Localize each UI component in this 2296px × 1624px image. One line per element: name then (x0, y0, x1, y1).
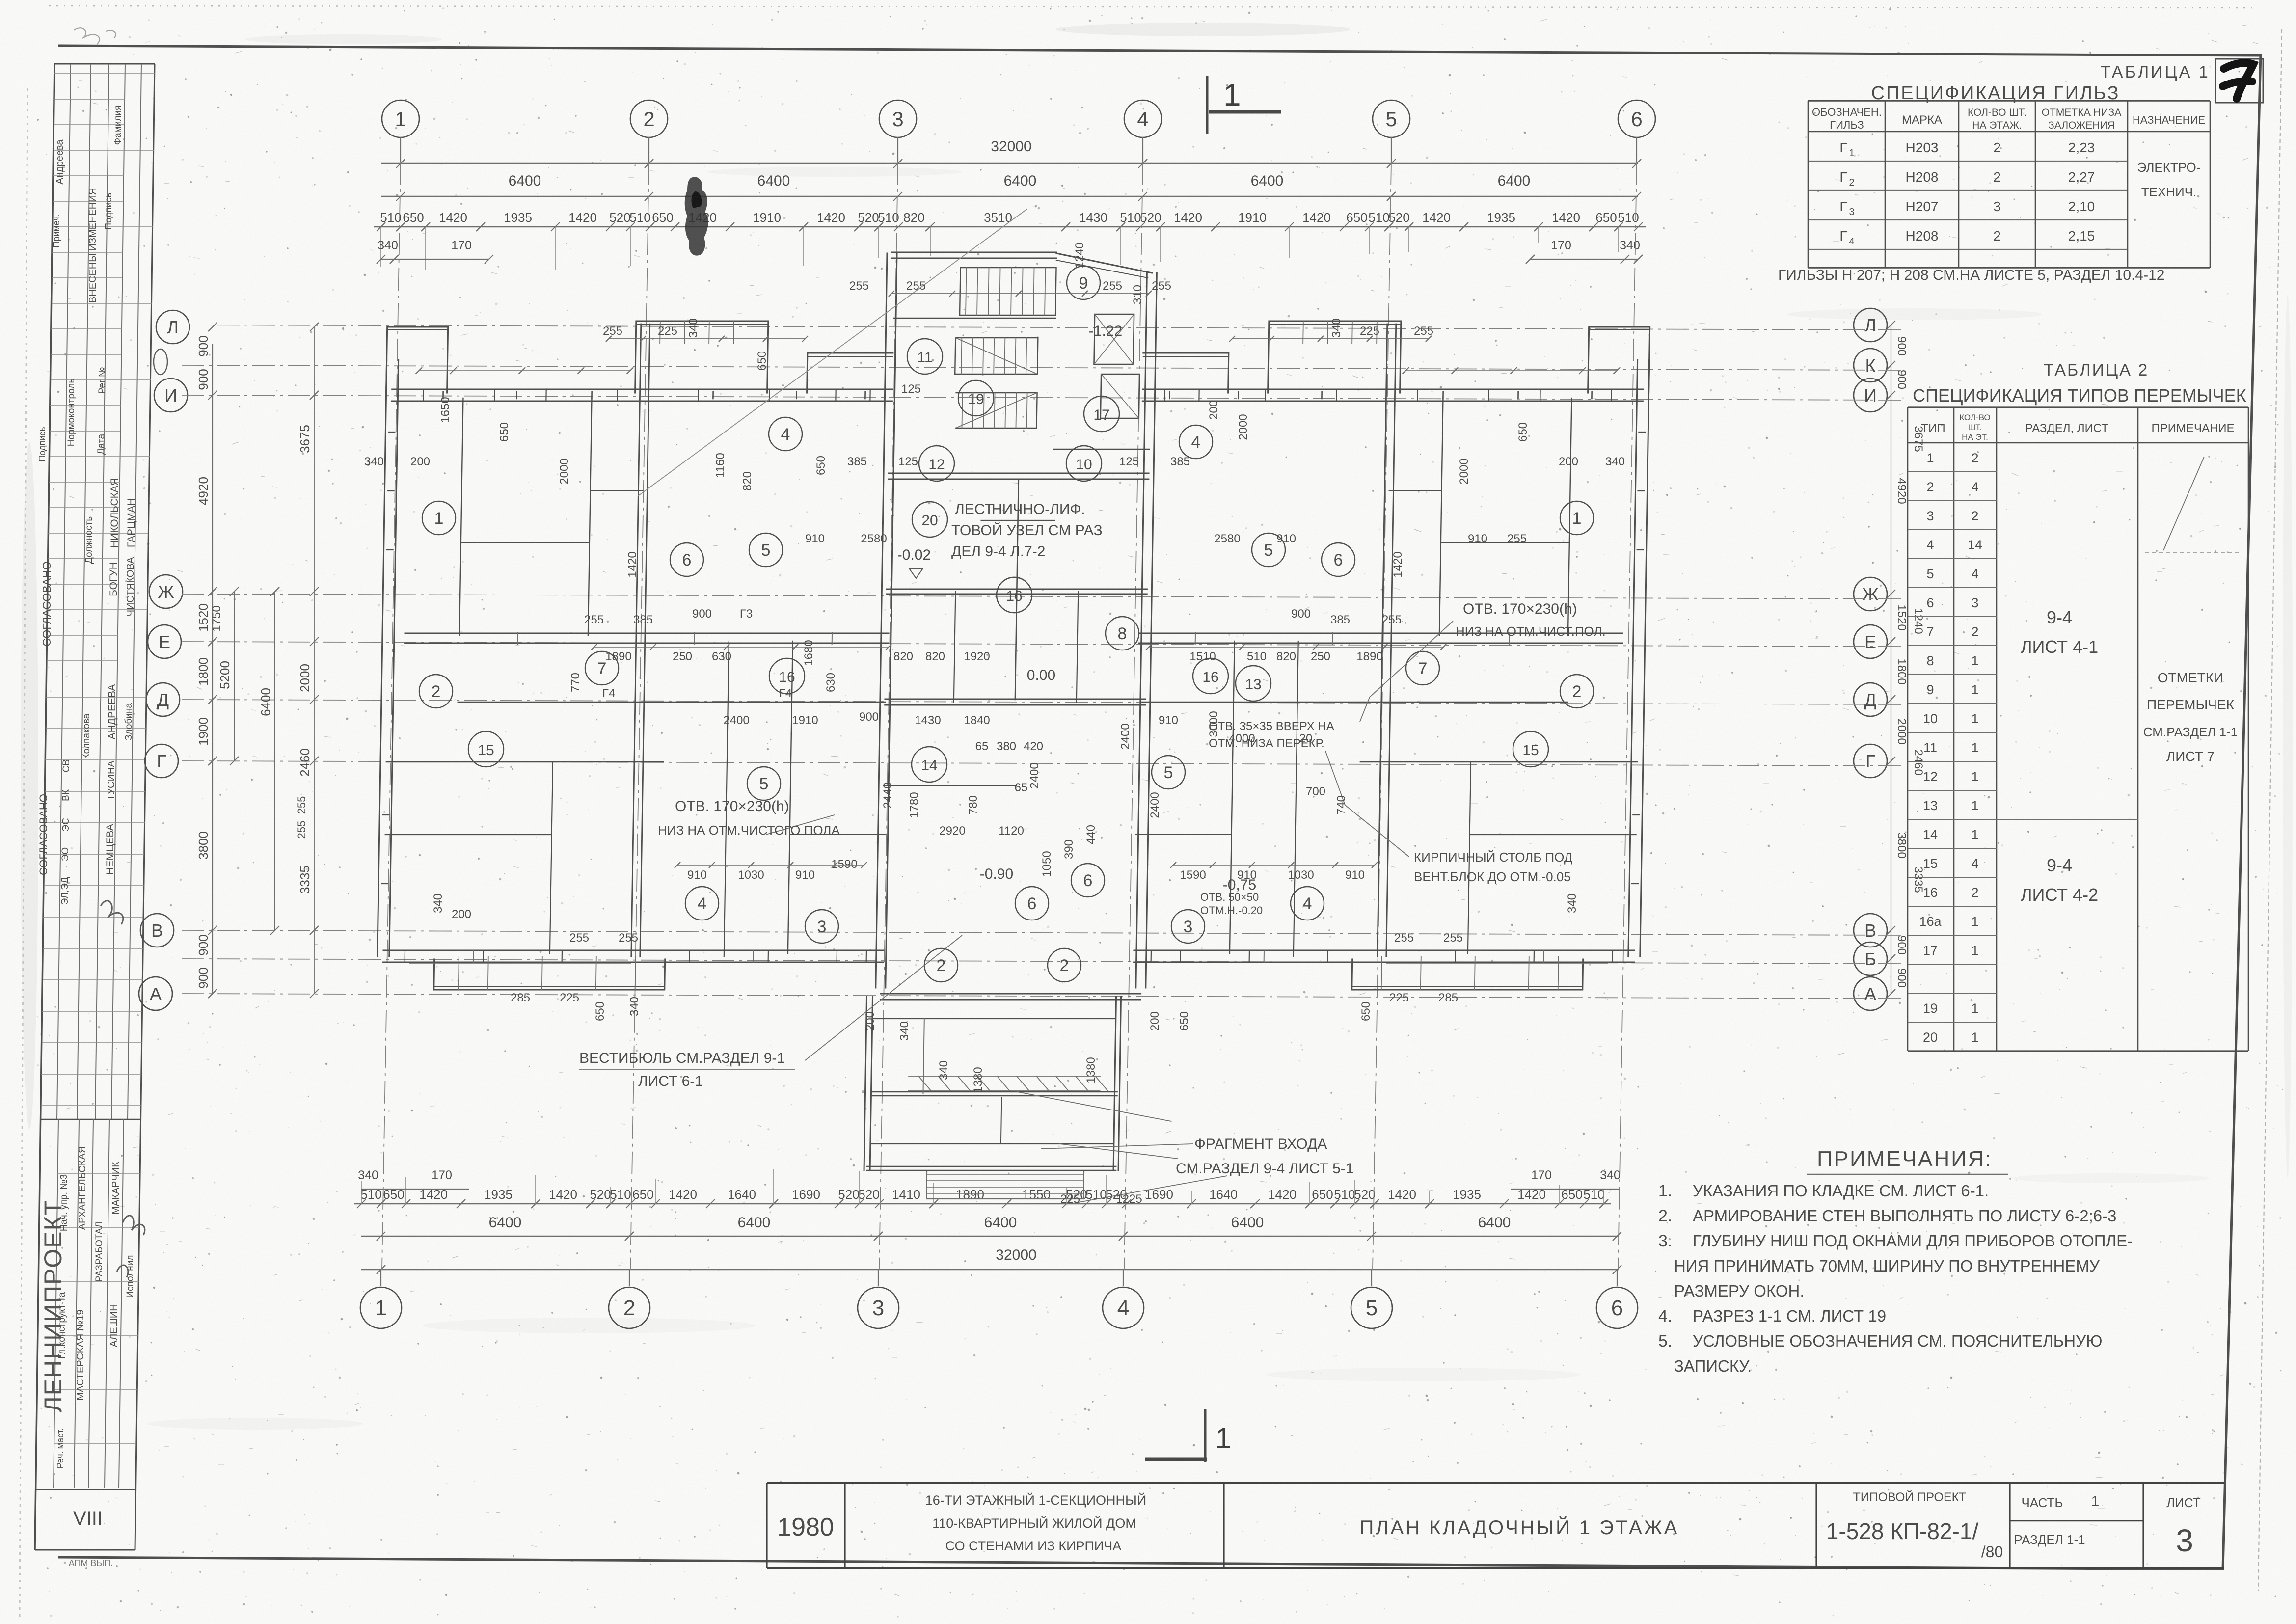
leader otv right (1360, 621, 1453, 722)
wing lower partition x1490 south (1294, 762, 1297, 956)
sheet frame border outer right edge (2258, 29, 2282, 1591)
plan chain G level left (677, 865, 864, 866)
wing interior door ticks (517, 632, 518, 644)
top overall dimension 32000 (381, 163, 1638, 164)
core wall bottom y2030 (880, 999, 1140, 1001)
long diagonal scratch line (638, 209, 1027, 496)
wing E-axis wall (405, 643, 889, 644)
axis grid vertical dash-dot lines (382, 162, 401, 1270)
tower top wall (892, 258, 1056, 259)
floor plan (374, 252, 1651, 1199)
left dimension chain inner (212, 344, 213, 994)
sheet frame border right (2223, 54, 2261, 1569)
tower landing wall y648 (894, 318, 1055, 319)
vestibule side partitions (1001, 1098, 1001, 1144)
central tower east wall (1136, 273, 1147, 988)
wing lower partition x1490 south (724, 762, 727, 956)
right dimension chain inner (1891, 325, 1891, 994)
leader kirpichny stolb (1325, 751, 1409, 857)
vestibule wall y2330 (870, 1143, 1113, 1144)
tower mid wall y915 (1053, 449, 1149, 450)
top 6400 dimension row (381, 196, 1638, 197)
scan grain overlay (0, 0, 0, 0)
vestibule bottom wall (867, 1170, 1116, 1171)
wing window jamb ticks top wall (1611, 389, 1612, 401)
wing bottom main wall (383, 962, 884, 963)
left dimension chain 5200 (234, 592, 235, 761)
left axis letter bubbles (156, 310, 189, 344)
wing top main wall (1143, 389, 1643, 390)
left stamp strip (35, 64, 155, 1568)
left dimension chain 6400 (274, 592, 275, 930)
wing top main wall (392, 401, 892, 402)
title block (767, 1483, 2224, 1568)
wing window jamb ticks top wall (423, 389, 424, 401)
top fine dimension row (374, 226, 1646, 227)
vestibule east wall (1113, 997, 1116, 1170)
plan inner dim chain above tower (891, 293, 1149, 294)
leader fragment vhoda (1041, 1144, 1193, 1149)
vestibule wall y2230 (871, 1095, 1117, 1097)
plan inner chain E level right (1149, 647, 1443, 648)
scan top edge dotted (49, 6, 2258, 8)
wing top block B windows (635, 321, 768, 393)
central tower west wall (876, 253, 887, 988)
tower stair flight 2 hatch (955, 338, 1038, 374)
core wall zh (887, 594, 1147, 595)
wing G-axis partition (1360, 761, 1637, 763)
core wall d (885, 704, 1145, 706)
wing partition x1135 (1468, 762, 1471, 953)
core small rooms (954, 592, 955, 702)
tower lift shaft 1 (1094, 314, 1134, 364)
bottom axis bubbles 1-6 (360, 1270, 402, 1328)
wing D-axis partition (1140, 702, 1567, 703)
wing interior door ticks (1509, 632, 1510, 644)
plan chain G level right (1173, 865, 1375, 866)
wing partition x1203 (1439, 398, 1443, 635)
entrance fragment leader lines (1017, 1092, 1172, 1121)
wing partition x1203 (588, 398, 592, 635)
top section cut mark 1 (1207, 76, 1281, 134)
right axis letter bubbles (1854, 308, 1887, 342)
wing partition x1620 (788, 641, 793, 953)
wing window sill lines bottom (1387, 963, 1608, 964)
wing partition x1135 (550, 762, 553, 953)
wing partition x941 (459, 398, 463, 635)
tower stair flight 1 hatch (960, 268, 1056, 315)
wing top pilaster ticks (1591, 392, 1593, 399)
wing window ticks west wall (1639, 432, 1645, 433)
scan blotches (1055, 23, 1350, 36)
top second fine row 340-170 (381, 259, 489, 260)
bottom fine dimension row (354, 1203, 1611, 1204)
vestibule entrance hatch band (909, 1076, 1108, 1091)
plan inner dim chain left wing top (609, 338, 805, 339)
sheet frame border bottom (58, 1557, 2224, 1569)
wing top block A (386, 327, 448, 393)
wing partition x941 (1568, 398, 1571, 635)
axis grid horizontal dash-dot lines (182, 325, 1906, 330)
wing partition x1620 (1230, 641, 1235, 953)
leader to otv label left (766, 815, 835, 835)
plan room number bubbles (422, 501, 456, 535)
vestibule partition y2075 (872, 1018, 1115, 1019)
wing window jamb ticks bottom wall (1612, 950, 1614, 962)
wing top block A (1588, 327, 1650, 393)
wing closet walls (461, 542, 590, 543)
bottom section cut mark 1 (1145, 1409, 1232, 1462)
plan bubble 16a superscript (997, 577, 1032, 613)
hand-written sheet number 7 box (2215, 59, 2263, 103)
ink smudge blob (685, 177, 708, 255)
wing G-axis partition (386, 761, 663, 763)
wing top block B windows (1268, 321, 1401, 393)
wing lower partition y1700 (1470, 834, 1636, 835)
core partition x2075 (1015, 479, 1019, 700)
title block part cell (2010, 1520, 2143, 1522)
wing window jamb ticks bottom wall (405, 950, 406, 962)
tower lift shaft 2 (1101, 374, 1139, 418)
wing lower partition y1700 (385, 834, 552, 835)
wing E-axis wall (1139, 633, 1622, 634)
scanner edge shadow left (20, 88, 27, 1620)
wing party wall x1310 (1378, 324, 1387, 956)
vestibule west wall (864, 997, 866, 1170)
table 2 specification peremychek (1908, 361, 2248, 1051)
handwriting above top-left frame (74, 28, 116, 44)
bottom overall dimension 32000 (361, 1269, 1619, 1270)
tower top slanted wall (1056, 253, 1152, 273)
table 2 razdel column split (1997, 819, 2138, 820)
wing window ticks west wall (388, 432, 395, 433)
top axis bubbles 1-6 (382, 100, 419, 162)
wing bottom main wall (1134, 950, 1634, 951)
entrance stoop below (926, 1171, 1084, 1199)
wing D-axis partition (458, 702, 885, 703)
wing partition x1490 (1297, 641, 1298, 762)
wing closet walls (1441, 542, 1569, 543)
tower stair flight 3 hatch (955, 393, 1037, 428)
tower wall y970 (889, 479, 1149, 480)
leader vestibule label (805, 935, 962, 1060)
wing party wall x1310 (631, 324, 641, 956)
sheet frame border top (58, 46, 2262, 55)
wing south annex (434, 959, 665, 990)
plan inner dim chain right wing top (1232, 338, 1429, 339)
plan inner chain E level left (594, 647, 889, 648)
wing chain above top wall (1405, 370, 1617, 371)
wing top block C (807, 353, 893, 393)
right wing outer west wall (1628, 360, 1638, 956)
wing window sill lines bottom (410, 963, 631, 964)
wing top pilaster ticks (442, 392, 444, 399)
bottom second fine row 340-170 (361, 1189, 469, 1190)
table 1 specification gilz (1808, 63, 2210, 268)
left strip signatures (101, 901, 145, 1277)
wing partition x1490 (727, 641, 729, 762)
left axis small oval (154, 349, 167, 375)
bottom 6400 dimension row (361, 1236, 1619, 1237)
left wing outer west wall (378, 360, 387, 956)
wing south annex (1352, 959, 1583, 990)
table 2 diagonal mark (2163, 457, 2204, 550)
wing top block C (1143, 353, 1229, 393)
wing chain above top wall (419, 370, 630, 371)
